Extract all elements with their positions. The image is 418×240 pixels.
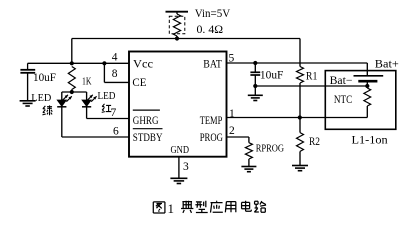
svg-text:1K: 1K [82, 76, 92, 88]
svg-text:Bat−: Bat− [330, 75, 353, 87]
svg-text:Vcc: Vcc [133, 58, 153, 70]
svg-text:TEMP: TEMP [200, 115, 223, 127]
svg-text:L1-1on: L1-1on [352, 134, 388, 146]
svg-text:7: 7 [111, 107, 117, 119]
svg-text:4: 4 [112, 51, 118, 63]
svg-text:10uF: 10uF [260, 69, 284, 81]
svg-text:6: 6 [113, 126, 119, 138]
svg-text:1: 1 [229, 108, 235, 120]
svg-text:STDBY: STDBY [133, 132, 163, 144]
svg-text:RPROG: RPROG [256, 142, 284, 154]
svg-text:PROG: PROG [200, 132, 223, 144]
svg-text:LED: LED [98, 90, 116, 102]
svg-text:3: 3 [183, 161, 189, 173]
svg-text:5: 5 [229, 53, 235, 65]
svg-text:GND: GND [171, 144, 190, 156]
svg-text:LED: LED [31, 92, 51, 104]
svg-text:BAT: BAT [203, 58, 222, 70]
svg-text:Vin=5V: Vin=5V [195, 8, 231, 20]
svg-text:CE: CE [132, 77, 146, 89]
svg-text:0. 4Ω: 0. 4Ω [197, 24, 224, 36]
svg-text:NTC: NTC [334, 94, 353, 106]
svg-text:R2: R2 [309, 136, 320, 148]
svg-text:1: 1 [168, 201, 175, 216]
svg-text:2: 2 [229, 125, 235, 137]
svg-text:R1: R1 [306, 71, 318, 83]
svg-text:GHRG: GHRG [133, 115, 159, 127]
svg-text:Bat+: Bat+ [375, 59, 399, 71]
svg-text:8: 8 [112, 68, 118, 80]
svg-text:10uF: 10uF [33, 72, 56, 84]
